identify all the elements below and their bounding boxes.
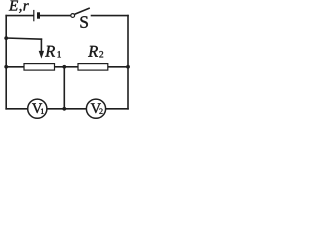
node junction right wire / resistor row — [126, 65, 130, 69]
node junction left wire / tap — [4, 36, 8, 40]
wire resistor row left segment — [6, 66, 24, 68]
battery E,r long (positive) plate — [33, 10, 35, 21]
wire battery to switch pivot — [40, 15, 71, 17]
node junction bottom row / mid vertical — [62, 107, 66, 111]
label R2 R — [88, 46, 98, 57]
wire V1 to bottom node — [47, 108, 64, 110]
rheostat slider arrowhead — [39, 51, 44, 59]
wire bottom node to V2 — [64, 108, 86, 110]
wire V2 to bottom-right corner — [106, 108, 128, 110]
wire R1 to mid node — [55, 66, 65, 68]
label R1 sub 1 — [58, 51, 61, 57]
wire switch to top-right corner — [92, 15, 129, 17]
label V2 sub 2 — [99, 109, 102, 114]
wire left side vertical — [5, 16, 7, 109]
node junction left wire / resistor row — [4, 65, 8, 69]
resistor R2 body — [78, 64, 108, 71]
wire right side vertical — [127, 16, 129, 109]
wire mid node to R2 — [64, 66, 78, 68]
label V1 sub 1 — [41, 109, 44, 114]
wire rheostat tap vertical — [40, 39, 42, 51]
wire rheostat tap horizontal — [6, 38, 41, 39]
label E,r — [9, 1, 29, 13]
label R2 sub 2 — [99, 51, 103, 57]
voltmeter V1 circle — [28, 99, 47, 118]
wire R2 to right wire — [108, 66, 128, 68]
wire mid node vertical to bottom node — [63, 67, 65, 109]
label S — [80, 16, 87, 28]
battery E,r short thick (negative) plate — [37, 12, 40, 18]
switch S blade — [75, 8, 90, 14]
resistor R1 body — [24, 64, 55, 71]
node junction between R1 and R2 — [62, 65, 66, 69]
label R1 R — [45, 46, 55, 57]
voltmeter V2 circle — [86, 99, 105, 118]
wire bottom left corner to V1 — [6, 108, 28, 110]
label V2 V — [91, 103, 101, 113]
wire top-left corner to battery — [6, 15, 33, 17]
switch S pivot circle — [71, 14, 75, 18]
label V1 V — [32, 103, 42, 113]
